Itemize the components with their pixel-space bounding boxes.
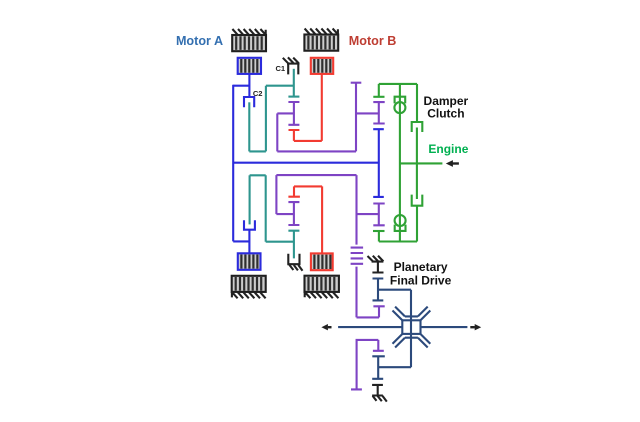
- engine input arrow: [446, 160, 459, 167]
- lower motor B stator: [305, 276, 339, 292]
- planetary ring shaft (navy): [373, 279, 384, 301]
- wire purple lower left vertical: [275, 175, 277, 214]
- wire purple lower-left corner: [351, 340, 384, 390]
- motor A rotor: [238, 58, 261, 74]
- damper clutch lower fork: [412, 195, 423, 206]
- gear teal upper (bar): [288, 96, 299, 98]
- wire teal lower-left horizontal: [249, 150, 266, 152]
- planetary bottom ground: [372, 385, 387, 402]
- gear blue right shaft: [373, 129, 384, 197]
- motor B stator: [304, 35, 338, 51]
- brake C1 plate (teal): [293, 69, 295, 97]
- wire navy to differential top: [378, 290, 411, 368]
- damper vertical shaft: [399, 84, 401, 242]
- lower motor A stator: [232, 276, 266, 292]
- wire teal lower plate: [249, 175, 251, 224]
- wire purple long horizontal lower: [276, 174, 356, 176]
- wire teal lower horizontal 2: [266, 241, 294, 243]
- damper bottom circle: [395, 215, 406, 226]
- gear green upper bar: [373, 96, 384, 98]
- engine right vertical upper: [416, 84, 418, 122]
- damper top circle: [394, 102, 405, 113]
- gear purple lower cluster: [288, 202, 299, 225]
- wire blue to lower rotor: [248, 230, 250, 254]
- wire blue lower horizontal: [233, 240, 249, 242]
- axle right: [421, 326, 468, 328]
- wire navy to differential bottom: [378, 366, 411, 368]
- wire green input corner: [378, 84, 380, 97]
- wire engine input line: [400, 162, 443, 164]
- differential bevel gears bottom: [393, 334, 431, 348]
- axle left: [338, 326, 402, 328]
- svg-text:Motor B: Motor B: [349, 34, 397, 48]
- engine housing bottom: [379, 240, 417, 242]
- svg-text:Motor A: Motor A: [176, 34, 223, 48]
- planetary brake ground (top): [368, 256, 384, 273]
- engine right vertical lower: [416, 206, 418, 242]
- wire purple right vertical upper: [355, 83, 357, 152]
- brake C1 fork: [287, 64, 300, 75]
- lower motor B stator hatching: [305, 292, 339, 298]
- gear teal lower: [288, 231, 299, 259]
- wire purple branch to right shaft: [356, 112, 379, 114]
- wire purple left vertical: [276, 113, 278, 151]
- damper top cup: [395, 97, 406, 104]
- gear red lower: [288, 186, 300, 196]
- damper bottom cup: [395, 225, 406, 231]
- clutch pack (purple multiplate): [351, 175, 385, 317]
- svg-text:Final Drive: Final Drive: [390, 273, 452, 287]
- damper clutch upper fork: [412, 122, 423, 132]
- gear purple right-shaft lower: [373, 204, 384, 226]
- wire purple long horizontal upper: [277, 150, 356, 152]
- svg-text:Planetary: Planetary: [394, 260, 448, 274]
- wire purple branch left: [277, 112, 294, 114]
- svg-text:Engine: Engine: [428, 142, 468, 156]
- wire red lower: [294, 186, 322, 253]
- wire teal lower vertical: [265, 175, 267, 241]
- gear purple top bar: [351, 82, 362, 84]
- wire teal left vertical: [265, 86, 267, 152]
- damper clutch inner plate: [416, 128, 418, 200]
- planetary lower shaft (navy): [372, 356, 385, 379]
- wire blue left branch: [233, 85, 249, 87]
- motor B rotor: [311, 58, 333, 74]
- axle left arrow: [321, 324, 331, 330]
- axle right arrow: [470, 324, 481, 330]
- engine green housing top: [379, 83, 417, 85]
- gear red upper: [289, 130, 300, 141]
- wire purple lower branch: [276, 213, 294, 215]
- lower motor A stator hatching: [232, 292, 266, 298]
- motor B stator ground hatching: [305, 29, 339, 35]
- wire red upper: [294, 74, 322, 141]
- wire blue left vertical: [232, 85, 234, 242]
- motor A stator: [232, 35, 266, 51]
- lower brake fork: [287, 254, 300, 265]
- wire teal upper horizontal: [266, 85, 294, 87]
- svg-text:Clutch: Clutch: [427, 107, 464, 121]
- wire green lower corner: [378, 231, 380, 242]
- brake C1 ground hatching: [283, 57, 299, 63]
- wire main blue bus: [233, 162, 379, 164]
- wire teal lower horizontal: [250, 174, 266, 176]
- lower motor A rotor: [238, 253, 261, 269]
- clutch C2 inner plate (teal): [248, 102, 250, 151]
- wire purple branch lower: [357, 213, 379, 215]
- clutch C2 fork: [244, 97, 254, 107]
- differential carrier box: [402, 320, 420, 334]
- lower dog clutch fork (blue): [244, 220, 255, 230]
- gear purple upper T: [288, 102, 299, 125]
- gear purple right-shaft upper: [373, 102, 384, 123]
- lower motor B rotor: [311, 253, 333, 270]
- differential bevel gears top: [393, 307, 431, 321]
- gear green lower bar: [373, 230, 385, 232]
- wire motor A rotor shaft: [248, 74, 250, 97]
- motor A stator ground hatching: [232, 29, 266, 35]
- svg-text:C1: C1: [275, 64, 285, 73]
- lower brake ground hatching: [289, 265, 302, 271]
